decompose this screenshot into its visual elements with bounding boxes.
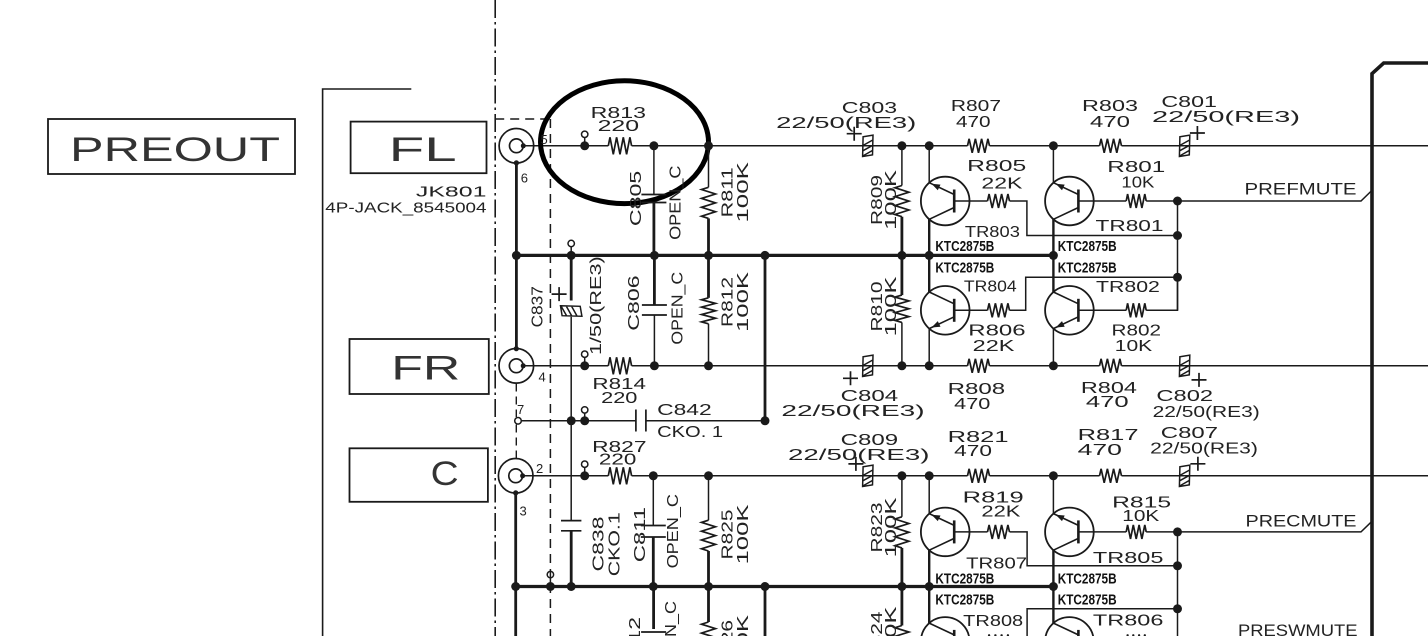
annotation ellipse around R813 [541, 81, 709, 204]
C804 plus mark [843, 371, 858, 385]
transistor TR801 [1045, 177, 1094, 226]
resistor R809 100K [901, 146, 903, 186]
right connector block box [1372, 63, 1428, 636]
capacitor C807 [1179, 465, 1189, 486]
capacitor C806 OPEN_C [653, 255, 656, 305]
transistor TR805 [1045, 508, 1094, 557]
svg-text:3: 3 [520, 504, 527, 519]
jack link dashed to C jack [515, 425, 517, 459]
capacitor C812 OPEN_C partial [652, 587, 655, 630]
svg-text:TR805: TR805 [1093, 550, 1164, 567]
bus2 node TR807 [925, 582, 934, 591]
svg-text:10K: 10K [1115, 338, 1153, 355]
bus2 node R823 [897, 582, 906, 591]
R824 label [869, 611, 886, 636]
capacitor C804 [863, 355, 873, 376]
rail node R820 [1173, 604, 1182, 613]
svg-text:100K: 100K [883, 606, 900, 636]
transistor TR802 [1045, 286, 1094, 335]
svg-text:22/50(RE3): 22/50(RE3) [776, 115, 916, 132]
node R823 top [897, 471, 906, 480]
resistor R807 470 [968, 139, 990, 153]
svg-text:10K: 10K [1121, 175, 1154, 192]
svg-text:6: 6 [521, 171, 528, 186]
svg-text:R812: R812 [720, 277, 737, 327]
R812 label [720, 277, 737, 327]
svg-text:22K: 22K [981, 504, 1020, 521]
R811 label [720, 167, 737, 217]
pin7 wire [521, 420, 765, 422]
R826 value 100K [735, 614, 752, 636]
C837 label [529, 286, 546, 327]
svg-text:R805: R805 [967, 158, 1026, 175]
resistor R805 22K [954, 200, 987, 202]
svg-text:JK801: JK801 [416, 184, 487, 201]
node TR804 emitter [925, 361, 934, 370]
capacitor C801 [1179, 135, 1189, 156]
svg-text:TR807: TR807 [966, 556, 1027, 573]
capacitor C837 [570, 255, 573, 300]
C812 label partial [627, 617, 644, 636]
resistor R806 22K [954, 309, 987, 311]
OPEN_C label row3 [665, 494, 682, 568]
resistor R814 [608, 357, 631, 374]
capacitor C803 [863, 135, 873, 156]
jack FL [499, 129, 534, 164]
svg-text:KTC2875B: KTC2875B [935, 572, 994, 588]
mute rail row1-2 [1177, 201, 1179, 310]
rail node R805 [1173, 231, 1182, 240]
bus2 node pin3 [511, 582, 520, 591]
resistor R817 470 [1100, 469, 1122, 483]
svg-text:C805: C805 [628, 171, 645, 227]
resistor R812 100K [707, 255, 710, 297]
svg-text:TR804: TR804 [964, 279, 1017, 296]
node C test point [582, 461, 588, 467]
svg-text:KTC2875B: KTC2875B [935, 593, 994, 609]
bus1 node drop [761, 251, 770, 260]
ground bus 1 [516, 254, 1053, 257]
bus1 node pin6 [512, 251, 521, 260]
bus2 node R825 [704, 582, 713, 591]
transistor TR806 partial [1045, 617, 1094, 636]
node drop pin7 [761, 416, 770, 425]
node C806 bottom [650, 361, 659, 370]
TR805 emitter wire [1052, 476, 1054, 514]
C811 label [632, 507, 649, 563]
capacitor C805 OPEN_C [653, 146, 655, 195]
transistor TR808 partial [921, 617, 970, 636]
resistor R826 100K partial [707, 587, 710, 623]
thick drop wire below bus2 [764, 587, 767, 636]
svg-text:100K: 100K [735, 162, 752, 223]
bus1 node TR801 [1049, 251, 1058, 260]
node TR801 emitter [1049, 141, 1058, 150]
bus1 node C806 [650, 251, 659, 260]
node TR802 emitter [1049, 361, 1058, 370]
C837 plus mark [552, 287, 567, 301]
rail node R815 [1173, 527, 1182, 536]
resistor R801 10K [1078, 200, 1126, 202]
C connector box [350, 448, 488, 502]
svg-text:C: C [431, 455, 459, 493]
jack FR [499, 349, 534, 384]
TR806 collector wire [1052, 587, 1054, 624]
svg-text:R825: R825 [720, 509, 737, 559]
svg-text:OPEN_C: OPEN_C [669, 272, 686, 345]
mute rail row3-4 [1177, 532, 1179, 636]
svg-text:TR801: TR801 [1096, 218, 1164, 235]
C806 label [626, 275, 643, 330]
R825 value 100K [735, 504, 752, 565]
R812 value 100K [735, 271, 752, 332]
R810 value 100K [883, 276, 900, 337]
rail node R806 [1173, 273, 1182, 282]
svg-text:C812: C812 [627, 617, 644, 636]
svg-text:C837: C837 [529, 286, 546, 327]
node R809 top [897, 141, 906, 150]
svg-text:PRECMUTE: PRECMUTE [1246, 512, 1357, 531]
C signal wire [523, 475, 1428, 477]
R809 label [869, 175, 886, 225]
TR808 collector wire [928, 587, 930, 624]
jack FR switch dashed link [515, 384, 517, 418]
svg-text:KTC2875B: KTC2875B [935, 239, 994, 255]
FL signal wire [523, 145, 1428, 147]
svg-text:C842: C842 [657, 402, 712, 419]
TR803 collector wire [928, 219, 930, 255]
svg-text:TR808: TR808 [963, 613, 1023, 630]
OPEN_C label row2 [669, 272, 686, 345]
node C805 top [649, 141, 658, 150]
R810 label [869, 281, 886, 331]
FL connector box [351, 122, 487, 174]
C809 plus mark [848, 457, 863, 471]
svg-text:PRESWMUTE: PRESWMUTE [1238, 621, 1358, 636]
svg-text:CKO. 1: CKO. 1 [657, 424, 723, 441]
resistor R815 10K [1078, 531, 1126, 533]
svg-text:C811: C811 [632, 507, 649, 563]
jack outline dashed right edge [549, 119, 551, 636]
svg-text:470: 470 [1086, 394, 1129, 411]
svg-text:PREOUT: PREOUT [70, 131, 280, 169]
C801 plus mark [1190, 126, 1205, 140]
OPEN_C label row1 [668, 166, 685, 240]
svg-text:22/50(RE3): 22/50(RE3) [781, 403, 924, 420]
jack outline dashed top edge [495, 118, 550, 120]
capacitor C809 [863, 465, 873, 486]
thick drop wire bus1 to pin7 wire [764, 255, 767, 420]
svg-text:220: 220 [598, 118, 640, 135]
resistor R821 470 [968, 469, 990, 483]
R809 value 100K [883, 169, 900, 230]
svg-text:R801: R801 [1107, 159, 1165, 176]
resistor R824 100K partial [901, 587, 904, 626]
rail node R819 [1173, 561, 1182, 570]
svg-text:470: 470 [1090, 114, 1130, 131]
bus1 node TR803 [925, 251, 934, 260]
pin 3 wire [514, 493, 517, 587]
pin 7 terminal circle [515, 418, 522, 425]
TR802 emitter wire [1052, 329, 1054, 366]
svg-text:5: 5 [541, 132, 548, 147]
svg-text:TR806: TR806 [1093, 612, 1164, 629]
svg-text:7: 7 [517, 402, 524, 417]
PREOUT label box [48, 119, 295, 174]
node R811 top [704, 141, 713, 150]
TR804 collector wire [928, 255, 930, 292]
svg-text:220: 220 [601, 390, 637, 407]
bus1 node R809 [897, 251, 906, 260]
svg-text:100K: 100K [883, 276, 900, 337]
resistor R825 100K [708, 476, 710, 520]
node C837 pin7 [567, 416, 576, 425]
pin7 test point [582, 407, 588, 413]
svg-text:TR802: TR802 [1096, 279, 1160, 296]
TR801 collector wire [1052, 219, 1054, 255]
bus2 node drop [761, 582, 770, 591]
resistor R802 10K [1078, 309, 1126, 311]
svg-text:100K: 100K [883, 169, 900, 230]
svg-text:R803: R803 [1082, 98, 1138, 115]
svg-text:R802: R802 [1112, 323, 1162, 340]
resistor R804 470 [1100, 359, 1122, 373]
svg-text:OPEN_C: OPEN_C [665, 494, 682, 568]
svg-text:C807: C807 [1161, 425, 1218, 442]
TR803 emitter wire [928, 146, 930, 183]
resistor R808 470 [968, 359, 990, 373]
transistor TR804 [921, 286, 970, 335]
bus2 node C811 [649, 582, 658, 591]
FR signal wire [523, 365, 1428, 367]
node R810 bottom [897, 361, 906, 370]
R825 label [720, 509, 737, 559]
TR805 collector wire [1052, 550, 1054, 586]
bracket group line [323, 89, 412, 636]
FR connector box [350, 339, 489, 394]
transistor TR803 [921, 177, 970, 226]
svg-text:R806: R806 [968, 323, 1025, 340]
bus1 node R811 [704, 251, 713, 260]
svg-text:OPEN_C: OPEN_C [663, 601, 680, 636]
C807 plus mark [1190, 457, 1205, 471]
resistor R819 22K [954, 531, 987, 533]
C805 label [628, 171, 645, 227]
TR807 emitter wire [928, 476, 930, 514]
svg-text:470: 470 [1078, 442, 1123, 459]
svg-text:PREFMUTE: PREFMUTE [1245, 180, 1357, 199]
R811 value 100K [735, 162, 752, 223]
resistor R811 100K [708, 146, 710, 188]
capacitor C842 [636, 410, 646, 432]
svg-text:KTC2875B: KTC2875B [1058, 261, 1117, 277]
TR801 emitter wire [1052, 146, 1054, 183]
C838 label [591, 516, 608, 571]
svg-text:100K: 100K [735, 504, 752, 565]
R826 label [720, 620, 737, 636]
svg-text:470: 470 [954, 396, 990, 413]
R824 value 100K [883, 606, 900, 636]
node C811 top [649, 471, 658, 480]
bus1 test point [568, 240, 574, 246]
svg-text:KTC2875B: KTC2875B [935, 261, 994, 277]
resistor R823 100K [901, 476, 903, 517]
C802 plus mark [1192, 373, 1207, 387]
svg-text:100K: 100K [735, 271, 752, 332]
svg-text:R807: R807 [951, 98, 1001, 115]
TR802 collector wire [1052, 255, 1054, 292]
svg-text:R826: R826 [720, 620, 737, 636]
svg-text:470: 470 [956, 114, 991, 131]
svg-text:FL: FL [389, 131, 457, 169]
resistor R803 470 [1100, 139, 1122, 153]
R823 value 100K [883, 497, 900, 558]
svg-text:C806: C806 [626, 275, 643, 330]
svg-text:2: 2 [536, 461, 543, 476]
svg-text:KTC2875B: KTC2875B [1058, 572, 1117, 588]
board boundary dash-dot line [494, 0, 496, 636]
bus2 test point [547, 571, 553, 577]
svg-text:KTC2875B: KTC2875B [1058, 239, 1117, 255]
capacitor C838 [570, 421, 572, 521]
svg-text:R811: R811 [720, 167, 737, 217]
jack chain wire below bus2 [514, 587, 517, 636]
svg-text:22/50(RE3): 22/50(RE3) [1153, 404, 1260, 421]
C838 value CKO.1 [606, 512, 623, 576]
transistor TR807 [921, 508, 970, 557]
svg-text:220: 220 [599, 452, 637, 469]
PREFMUTE wire [1178, 191, 1372, 202]
C837 value 1/50(RE3) [588, 256, 605, 355]
bus2 node C838 [567, 582, 576, 591]
svg-text:470: 470 [954, 443, 992, 460]
svg-text:22/50(RE3): 22/50(RE3) [1150, 441, 1258, 458]
node TR807 emitter [925, 471, 934, 480]
node TR805 emitter [1049, 471, 1058, 480]
node FR test point [582, 351, 588, 357]
TR807 collector wire [928, 550, 930, 586]
svg-text:22K: 22K [981, 176, 1022, 193]
svg-text:1/50(RE3): 1/50(RE3) [588, 256, 605, 355]
capacitor C802 [1179, 355, 1189, 376]
bus2 node TR805 [1049, 582, 1058, 591]
svg-text:22/50(RE3): 22/50(RE3) [788, 447, 930, 464]
svg-text:4: 4 [539, 369, 546, 384]
svg-text:FR: FR [391, 350, 460, 388]
ground bus 2 [516, 585, 1054, 588]
capacitor C811 OPEN_C [652, 476, 654, 526]
svg-text:22K: 22K [973, 338, 1015, 355]
svg-text:CKO.1: CKO.1 [606, 512, 623, 576]
node TR803 emitter [925, 141, 934, 150]
C803 plus mark [847, 127, 862, 141]
jack C [498, 459, 533, 494]
svg-text:KTC2875B: KTC2875B [1058, 593, 1117, 609]
svg-text:C802: C802 [1156, 388, 1213, 405]
resistor R810 100K [901, 255, 904, 295]
resistor R827 [608, 467, 631, 484]
svg-text:22/50(RE3): 22/50(RE3) [1152, 109, 1300, 126]
node R825 top [704, 471, 713, 480]
svg-text:4P-JACK_8545004: 4P-JACK_8545004 [325, 200, 486, 217]
svg-text:100K: 100K [883, 497, 900, 558]
pin 6 wire [515, 163, 518, 349]
node FL test point [582, 131, 588, 137]
svg-text:100K: 100K [735, 614, 752, 636]
svg-text:C838: C838 [591, 516, 608, 571]
rail node R801 [1173, 197, 1182, 206]
PRECMUTE wire [1178, 521, 1372, 532]
OPEN_C label row4 [663, 601, 680, 636]
resistor R813 [608, 137, 631, 154]
svg-text:10K: 10K [1122, 508, 1159, 525]
R823 label [869, 502, 886, 552]
node R812 bottom [704, 361, 713, 370]
TR804 emitter wire [928, 329, 930, 366]
svg-text:OPEN_C: OPEN_C [668, 166, 685, 240]
